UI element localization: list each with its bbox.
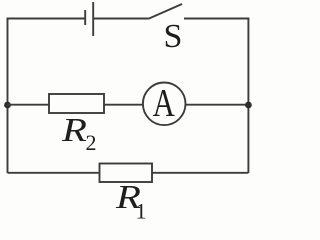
node: right junction dot xyxy=(245,102,252,109)
svg-text:R: R xyxy=(61,112,87,149)
wire: left junction to R2 xyxy=(8,104,50,106)
wire: right vertical branch xyxy=(247,19,249,174)
wire: R1 to bottom-right corner xyxy=(152,172,248,174)
svg-text:A: A xyxy=(153,81,176,124)
wire: left vertical branch xyxy=(7,19,9,174)
svg-text:2: 2 xyxy=(86,130,97,155)
wire: bottom-left segment to R1 xyxy=(8,172,100,174)
svg-text:S: S xyxy=(164,18,183,55)
wire: switch right contact to top-right corner xyxy=(184,18,249,20)
wire: R2 to ammeter xyxy=(104,104,143,106)
battery: short negative plate xyxy=(84,10,86,25)
wire: top-left segment to battery xyxy=(7,18,86,20)
battery: long positive plate xyxy=(92,2,94,36)
svg-text:1: 1 xyxy=(136,199,147,223)
switch S: open blade (diagonal) xyxy=(149,4,183,19)
node: left junction dot xyxy=(4,102,11,109)
resistor R1: box xyxy=(100,164,153,183)
resistor R2: box xyxy=(49,94,104,113)
ammeter A: circle xyxy=(143,83,186,126)
wire: battery to switch pivot xyxy=(93,18,148,20)
wire: ammeter to right junction xyxy=(186,104,249,106)
